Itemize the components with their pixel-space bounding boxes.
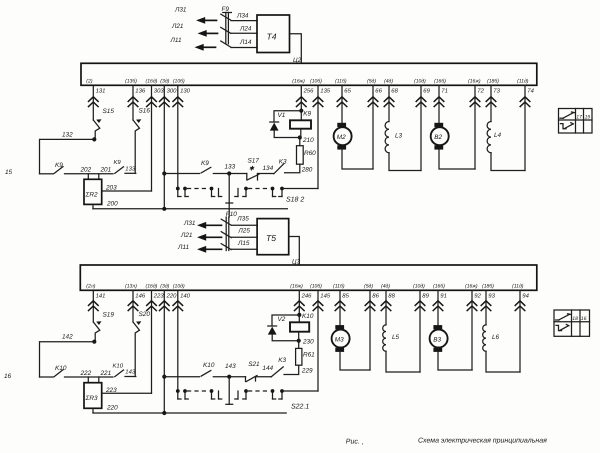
svg-text:140: 140 [180,292,191,299]
svg-text:Л21: Л21 [180,232,193,239]
connector U3 pin 94 [512,283,530,372]
svg-text:S16: S16 [139,108,151,115]
connector U2 pin 135 (10b) [310,78,331,188]
svg-text:(2): (2) [86,78,93,84]
switch S15 [93,108,114,139]
svg-text:S15: S15 [103,108,115,115]
svg-text:(10д): (10д) [173,283,185,289]
svg-text:68: 68 [391,87,398,94]
wire chain segment [164,173,199,175]
node: chain / pin 220 [162,375,166,379]
svg-text:✱: ✱ [249,165,255,172]
svg-text:K10: K10 [113,362,124,369]
svg-text:19: 19 [585,114,591,120]
svg-text:(10б): (10б) [310,283,322,289]
wire 202 [65,167,114,174]
svg-text:K9: K9 [201,160,209,167]
connector U2 [81,57,537,86]
svg-text:17: 17 [576,114,582,120]
connector U2 pin 130 (10b) [173,78,191,188]
wire 142 [40,334,95,377]
svg-text:72: 72 [477,87,484,94]
svg-text:134: 134 [263,165,274,172]
wire 144 [256,365,274,377]
svg-text:F10: F10 [226,211,237,218]
svg-text:(16б): (16б) [434,78,446,84]
svg-text:B2: B2 [434,134,442,141]
connector U2 pin 131 (2) [86,78,105,120]
connector U3 pin 85 [333,283,350,325]
svg-text:S20: S20 [139,311,151,318]
svg-text:K3: K3 [278,357,286,364]
wire 200 [93,200,287,209]
svg-text:K10: K10 [203,362,215,369]
wire from T5 to connector U3 [289,237,300,266]
svg-text:L5: L5 [392,334,400,341]
arrow to line L31 (top) [174,7,217,24]
wire 133 [213,163,247,173]
svg-text:(2л): (2л) [86,283,95,289]
svg-text:Л31: Л31 [183,220,196,227]
connector U3 pin 145 [310,283,331,391]
inductor L3 [385,122,421,171]
node K10 coil top [297,313,301,317]
svg-text:K10: K10 [302,313,314,320]
svg-text:Л21: Л21 [171,23,184,30]
svg-text:K9: K9 [114,159,122,166]
svg-text:L4: L4 [494,132,502,139]
connector U2 pin 65 (11b) [335,78,352,123]
svg-text:132: 132 [62,131,73,138]
wire 210 [300,137,314,146]
diode V1 [270,111,302,138]
wire 229 [284,365,313,374]
svg-text:(10д): (10д) [413,283,425,289]
contact K3 (bottom) [271,357,286,377]
svg-text:(18б): (18б) [487,78,499,84]
svg-text:135: 135 [320,87,331,94]
connector U2 pin 69 (10d) [414,78,431,170]
svg-text:66: 66 [375,87,382,94]
motor M2 [334,123,373,169]
svg-text:ΣR3: ΣR3 [85,395,98,402]
node: junction S19 / wire 142 [92,340,96,344]
connector U3 pin 141 [86,283,105,322]
svg-text:L6: L6 [492,334,500,341]
svg-text:256: 256 [303,87,315,94]
svg-text:73: 73 [493,87,500,94]
svg-text:ΣR2: ΣR2 [85,192,98,199]
svg-text:(11б): (11б) [335,78,347,84]
svg-text:142: 142 [62,334,73,341]
svg-text:(5д): (5д) [364,283,373,289]
relay coil K10 [290,313,314,341]
svg-text:Л14: Л14 [239,39,252,46]
svg-text:R61: R61 [303,352,315,359]
wire 132 [40,131,95,174]
wire 143 (to S20) [125,369,136,377]
svg-text:R60: R60 [304,150,316,157]
svg-text:16: 16 [581,316,587,322]
connector U3 [80,259,537,291]
connector U2 pin 303 (16d) [146,78,165,191]
node: junction to F10 [227,171,231,175]
diode V2 [268,315,300,341]
arrow to line L11 (top) [170,37,216,51]
arrow to line L31 (bottom) [183,220,222,229]
svg-text:201: 201 [100,167,112,174]
legend table (bottom) [554,310,590,336]
switch S20 [133,311,150,377]
node K9 coil top [299,109,303,113]
wire 133 (to S16) [125,166,136,174]
svg-text:(18б): (18б) [482,283,494,289]
arrow to line L21 (top) [171,23,218,37]
connector U3 pin 140 [173,283,191,391]
connector U2 pin 72 (16zh) [468,78,485,169]
svg-text:Л25: Л25 [237,227,250,234]
svg-text:S18 2: S18 2 [286,197,304,204]
node: wire 220 / pin 220 [162,411,166,415]
svg-text:(16б): (16б) [433,283,445,289]
legend table (top) [559,109,593,134]
svg-text:(16д): (16д) [146,283,158,289]
node 210 [298,135,302,139]
svg-text:Л24: Л24 [239,25,252,32]
svg-text:Л15: Л15 [237,240,250,247]
svg-text:133: 133 [125,166,136,173]
connector U3 pin 220 [160,283,178,413]
wire pin145 to S22.1 [283,390,318,392]
wire L15 [232,240,258,250]
wire 280 [285,164,313,173]
svg-text:(16д): (16д) [146,78,158,84]
wire 201 / contact K9 (second) [100,159,124,173]
node: wire 200 / pin 300 [162,207,166,211]
relay coil K9 [290,111,312,138]
svg-text:220: 220 [106,405,118,412]
generator B3 [430,325,472,370]
connector U3 pin 93 [481,283,495,325]
switch S17 [247,158,260,181]
svg-text:(10д): (10д) [414,78,426,84]
svg-text:(16ж): (16ж) [465,283,478,289]
svg-text:133: 133 [225,163,236,170]
node 230 [297,339,301,343]
caption [346,438,547,446]
wire L24 [231,25,257,33]
svg-text:B3: B3 [433,336,441,343]
node: junction S15 / wire 132 [92,137,96,141]
svg-text:S21: S21 [248,361,260,368]
svg-text:131: 131 [96,87,106,94]
svg-text:T5: T5 [266,233,276,243]
connector U2 pin 74 (11d) [517,78,535,170]
connector U2 pin 136 (13b) [125,78,146,120]
svg-text:V1: V1 [278,112,286,119]
node: chain / pin 300 [162,171,166,175]
inductor L4 [487,122,525,171]
connector U2 pin 66 (5d) [367,78,383,169]
wire 203 [102,184,152,191]
svg-text:144: 144 [262,365,273,372]
svg-text:143: 143 [125,369,136,376]
svg-text:(16ж): (16ж) [292,78,305,84]
wire to F10 with terminal [226,174,233,218]
svg-text:T4: T4 [267,32,277,42]
svg-text:(10б): (10б) [173,78,185,84]
contact K9 (left) [40,162,64,174]
resistor assembly SR3 [84,377,102,408]
svg-text:221: 221 [100,370,112,377]
wire from T4 to connector U2 [290,34,302,64]
svg-text:223: 223 [153,292,165,299]
svg-text:202: 202 [80,167,92,174]
contact K3 (top) [274,158,287,174]
svg-text:(13л): (13л) [125,283,137,289]
connector U3 pin 86 [364,283,380,370]
switch S21 [246,361,261,382]
svg-text:143: 143 [225,363,236,370]
svg-text:(11д): (11д) [517,78,529,84]
contact group S22.1 [176,389,309,410]
arrow to line L21 (bottom) [180,232,222,241]
svg-text:(11д): (11д) [512,283,524,289]
svg-text:S22.1: S22.1 [291,404,309,411]
wire L35 [232,216,258,226]
svg-text:91: 91 [440,292,447,299]
svg-text:Л11: Л11 [177,244,189,251]
svg-text:Л31: Л31 [174,7,187,14]
svg-text:203: 203 [105,184,117,191]
svg-text:300: 300 [167,87,178,94]
connector U3 pin 89 [413,283,430,372]
svg-text:(11б): (11б) [333,283,345,289]
connector U3 pin 223 [146,283,165,393]
svg-text:18: 18 [572,316,578,322]
arrow to line L11 (bottom) [177,244,222,253]
connector U2 pin 256 (16zh) [292,78,314,120]
svg-text:65: 65 [344,87,351,94]
wire 221 / contact K10 (second) [100,362,124,376]
wire 134 [258,165,274,174]
generator B2 [431,123,475,169]
svg-text:136: 136 [135,87,146,94]
connector U3 pin 91 [433,283,447,325]
connector U3 pin 92 [465,283,482,370]
svg-text:92: 92 [474,292,481,299]
svg-text:L3: L3 [395,133,403,140]
svg-text:210: 210 [302,137,314,144]
svg-text:Рис.: Рис. [346,438,360,445]
transformer block T4 [257,15,290,53]
svg-text:M3: M3 [335,336,344,343]
svg-text:146: 146 [135,292,146,299]
connector U2 pin 300 (3d) [160,78,178,209]
svg-text:89: 89 [422,292,429,299]
wire 222 [65,370,114,377]
svg-text:(13б): (13б) [125,78,137,84]
connector U2 pin 73 (18b) [486,78,500,121]
switch S16 [133,108,150,174]
svg-text:69: 69 [423,87,430,94]
contact K10 (middle) [201,362,215,376]
transformer block T5 [257,219,289,255]
resistor assembly SR2 [84,174,102,205]
svg-text:145: 145 [320,292,331,299]
wire chain segment (bottom) [164,376,199,378]
svg-text:220: 220 [166,292,178,299]
contact K9 (middle) [201,160,211,173]
svg-text:(5д): (5д) [367,78,376,84]
svg-text:Л11: Л11 [170,37,182,44]
svg-text:246: 246 [301,292,313,299]
circuit breaker F10 [221,211,237,251]
inductor L6 [483,325,520,372]
wire L34 [231,12,257,20]
svg-text:71: 71 [441,87,448,94]
contact group S18.2 [176,187,304,204]
svg-text:86: 86 [372,292,379,299]
wire 230 [299,338,314,348]
svg-text:85: 85 [342,292,349,299]
svg-text:141: 141 [96,292,106,299]
terminal stub (bottom) [226,377,233,405]
wire pin135 to S18.2 [283,188,318,190]
svg-text:S19: S19 [103,312,115,319]
connector U2 pin 68 (4d) [384,78,399,121]
wire L14 [231,39,257,48]
contact K10 (left) [40,365,67,377]
svg-text:V2: V2 [278,316,286,323]
svg-text:Л35: Л35 [236,216,249,223]
svg-text:(4д): (4д) [384,78,393,84]
wire 143 [213,363,245,377]
svg-text:(3д): (3д) [160,283,169,289]
svg-text:(16ж): (16ж) [468,78,481,84]
inductor L5 [383,325,420,372]
svg-text:280: 280 [301,166,313,173]
wire 220 [93,405,286,413]
svg-text:,: , [362,439,364,446]
node: junction to terminal (bottom) [227,375,231,379]
svg-text:(10б): (10б) [310,78,322,84]
svg-text:230: 230 [302,338,314,345]
svg-text:Схема электрическая принципиал: Схема электрическая принципиальная [418,438,547,445]
svg-text:130: 130 [180,87,191,94]
svg-text:(16ж): (16ж) [290,283,303,289]
switch S19 [93,312,114,342]
connector U3 pin 146 [125,283,146,322]
connector U3 pin 88 [381,283,396,325]
svg-text:K9: K9 [303,111,311,118]
svg-text:200: 200 [106,200,118,207]
wire 223 [102,387,152,394]
svg-text:M2: M2 [337,134,346,141]
wire L25 [232,227,258,237]
svg-text:(4д): (4д) [381,283,390,289]
svg-text:15: 15 [5,169,13,176]
svg-text:Л34: Л34 [236,12,249,19]
svg-text:16: 16 [4,373,12,380]
motor M3 [332,325,370,370]
svg-text:74: 74 [527,87,534,94]
connector U3 pin 246 [290,283,312,322]
svg-text:222: 222 [80,370,92,377]
svg-text:93: 93 [488,292,495,299]
resistor R61 [296,348,316,365]
svg-text:229: 229 [301,367,313,374]
svg-text:(3д): (3д) [160,78,169,84]
svg-text:88: 88 [388,292,395,299]
svg-text:303: 303 [154,87,165,94]
svg-text:94: 94 [522,292,529,299]
resistor R60 [297,146,317,165]
svg-text:S17: S17 [248,158,260,165]
circuit breaker F9 [221,6,232,47]
connector U2 pin 71 (16b) [434,78,448,123]
